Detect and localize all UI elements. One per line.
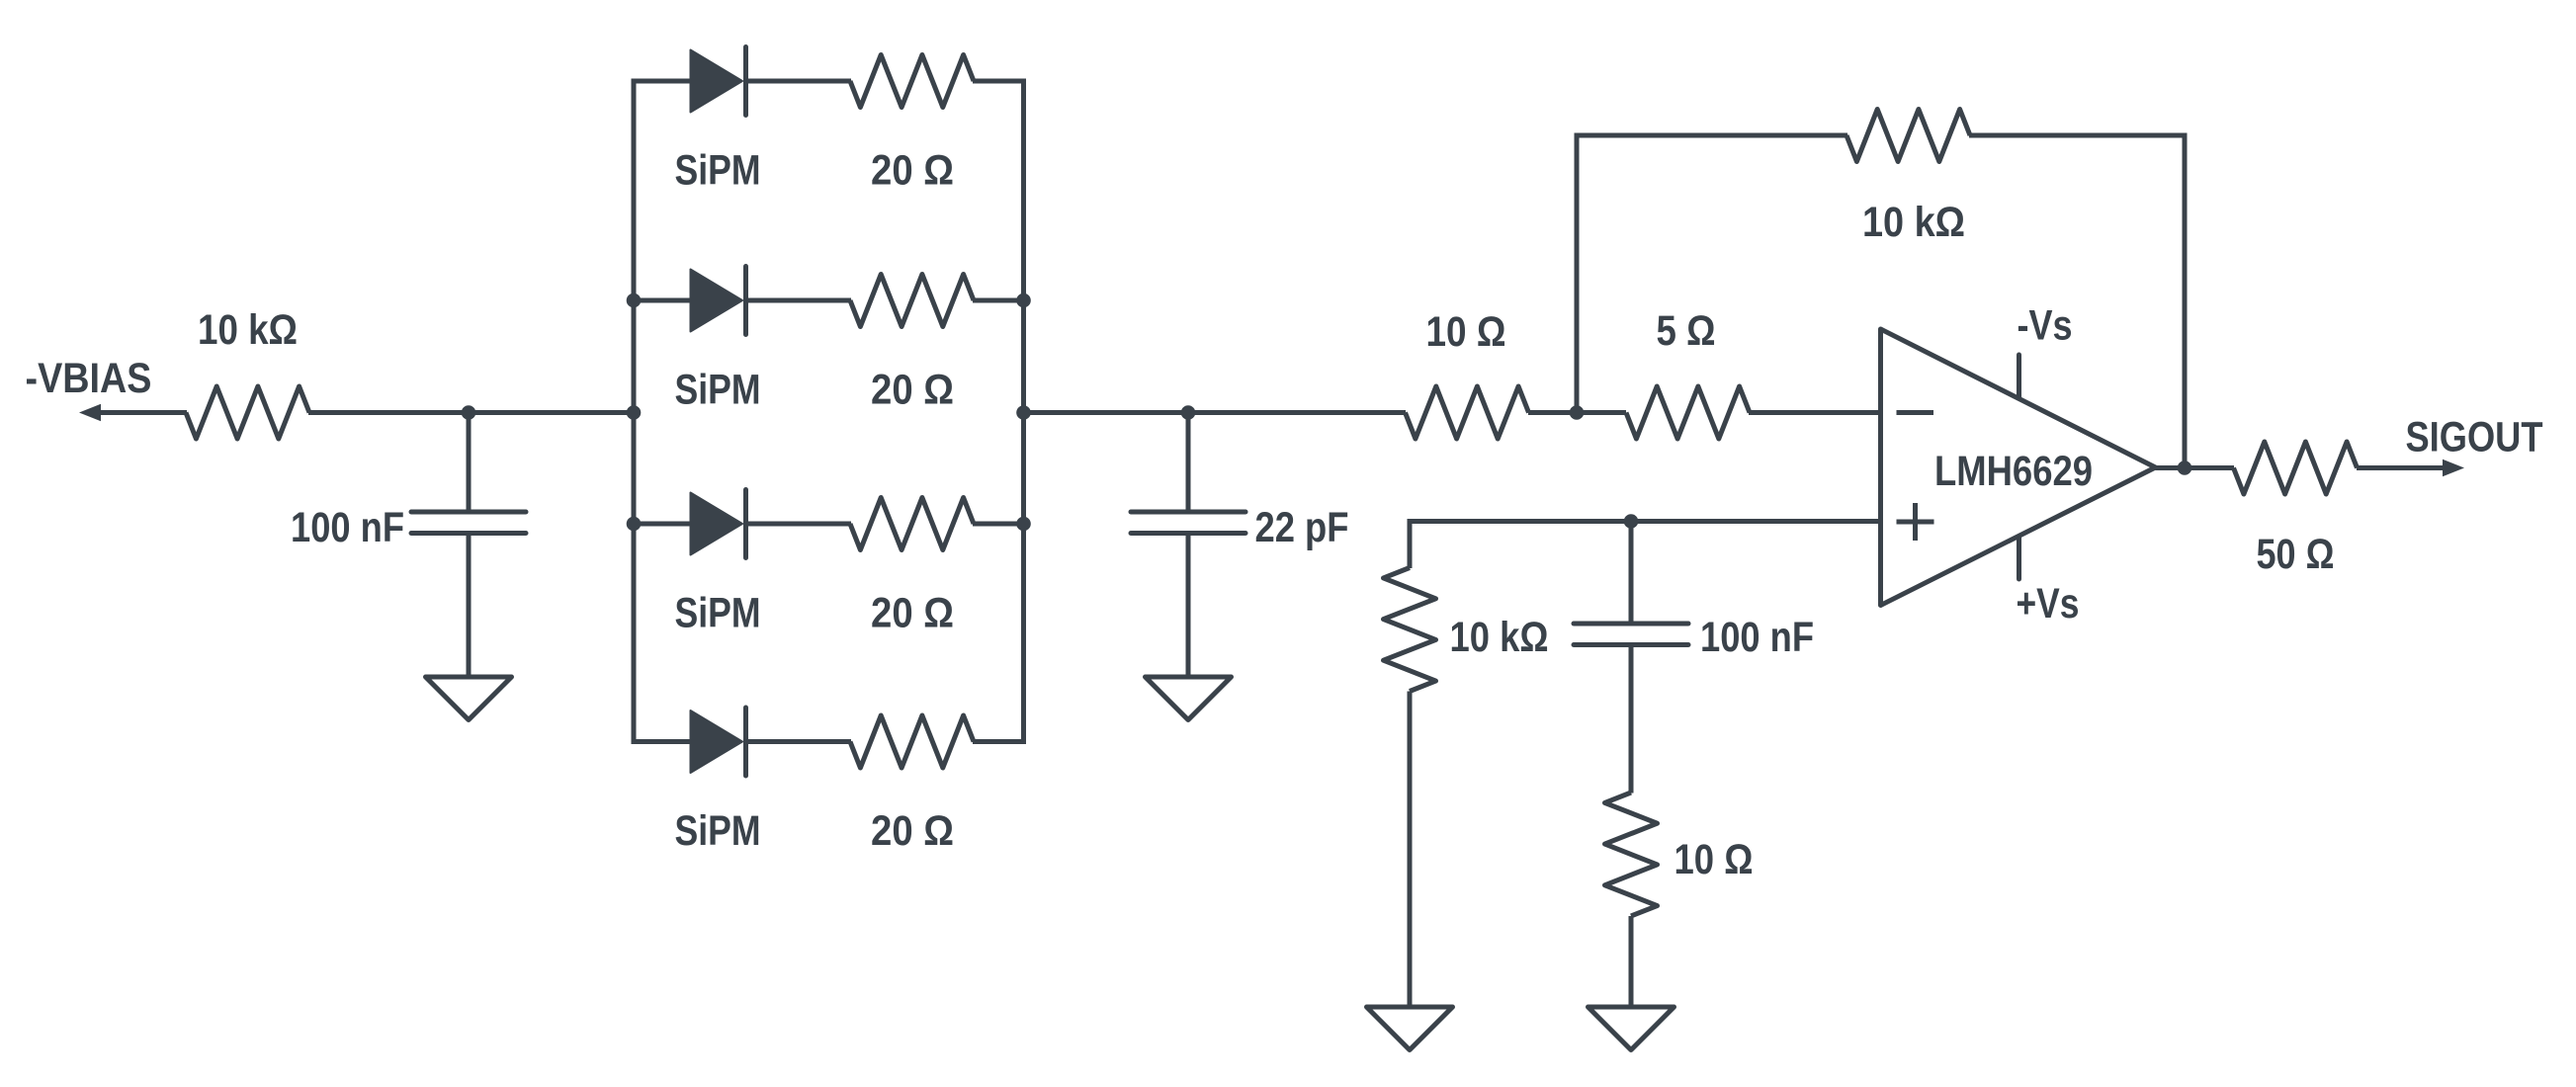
svg-text:LMH6629: LMH6629 <box>1934 449 2093 495</box>
svg-text:SIGOUT: SIGOUT <box>2406 415 2543 461</box>
svg-text:20 Ω: 20 Ω <box>871 808 954 855</box>
svg-text:20 Ω: 20 Ω <box>871 591 954 637</box>
svg-text:SiPM: SiPM <box>675 148 761 195</box>
svg-text:50 Ω: 50 Ω <box>2257 532 2335 578</box>
svg-text:10 Ω: 10 Ω <box>1426 309 1506 356</box>
svg-text:-VBIAS: -VBIAS <box>26 356 152 402</box>
svg-text:22 pF: 22 pF <box>1255 505 1349 551</box>
svg-text:20 Ω: 20 Ω <box>871 148 954 195</box>
svg-text:100 nF: 100 nF <box>1700 615 1814 661</box>
svg-text:20 Ω: 20 Ω <box>871 368 954 414</box>
svg-text:SiPM: SiPM <box>675 368 761 414</box>
svg-text:SiPM: SiPM <box>675 591 761 637</box>
svg-text:+Vs: +Vs <box>2017 581 2080 627</box>
svg-text:10 kΩ: 10 kΩ <box>1450 615 1549 661</box>
svg-text:-Vs: -Vs <box>2018 303 2073 350</box>
svg-text:10 kΩ: 10 kΩ <box>1862 200 1965 246</box>
svg-text:10 kΩ: 10 kΩ <box>198 307 298 354</box>
svg-text:100 nF: 100 nF <box>291 505 404 551</box>
svg-text:10 Ω: 10 Ω <box>1674 837 1754 883</box>
svg-text:5 Ω: 5 Ω <box>1657 308 1716 355</box>
svg-text:SiPM: SiPM <box>675 808 761 855</box>
